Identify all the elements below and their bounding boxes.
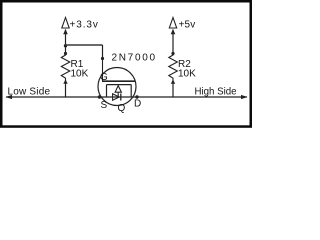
svg-text:G: G [100, 72, 108, 83]
svg-text:Q: Q [118, 103, 126, 114]
svg-text:10K: 10K [178, 69, 196, 80]
node drain pin [135, 95, 138, 98]
node R2 top pin [171, 52, 174, 55]
wire 5v rail to R2 [172, 30, 174, 54]
power symbol +3.3v [62, 18, 69, 29]
junction gate branch [64, 44, 67, 47]
bus left arrowhead [6, 95, 13, 99]
transistor Q 2N7000 body circle [98, 68, 136, 106]
svg-text:10K: 10K [71, 69, 89, 80]
svg-text:+3.3v: +3.3v [70, 20, 99, 31]
wire gate branch horizontal [66, 44, 103, 46]
substrate arrow (up triangle) [115, 86, 121, 93]
node R1 top pin [64, 52, 67, 55]
resistor R2 [169, 54, 178, 81]
power symbol +5v [169, 18, 176, 29]
wire arrowhead up (3.3v rail) [63, 29, 68, 34]
svg-text:D: D [134, 99, 141, 110]
wire R2 to high-side bus [172, 80, 174, 97]
wire arrowhead up (5v rail) [171, 29, 176, 34]
body diode triangle [113, 94, 120, 101]
wire 3.3v rail to R1 [65, 30, 67, 54]
node R1 bottom pin [63, 80, 67, 84]
svg-text:Low Side: Low Side [8, 86, 51, 97]
node R2 bottom pin [171, 80, 175, 84]
svg-text:+5v: +5v [179, 20, 196, 31]
channel right leg [130, 85, 132, 97]
svg-text:High Side: High Side [195, 86, 237, 97]
bus right arrowhead [241, 95, 248, 99]
body diode cathode bar [120, 94, 122, 101]
resistor R1 [61, 54, 70, 81]
wire R1 to low-side bus [65, 80, 67, 97]
channel left leg [106, 85, 108, 97]
border frame [1, 1, 251, 126]
node gate pin [101, 57, 104, 60]
wire gate lead into symbol [102, 59, 104, 81]
wire gate branch vertical [102, 45, 104, 59]
node source pin [98, 95, 101, 98]
svg-text:2N7000: 2N7000 [112, 52, 157, 63]
svg-text:S: S [101, 100, 108, 111]
wire low/high side bus [6, 96, 247, 98]
gate bar [102, 80, 135, 82]
channel top bar [107, 84, 132, 86]
substrate stub wire [117, 92, 119, 97]
